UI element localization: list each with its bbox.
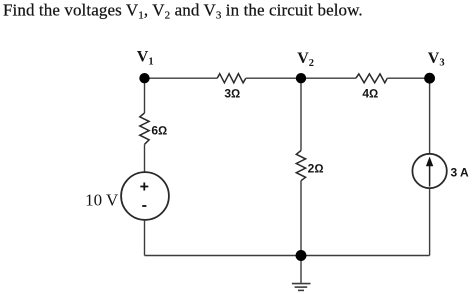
wire bottom rail left: left corner to ground junction (145, 255, 302, 257)
current source IS1 circle (412, 154, 446, 188)
wire bottom rail right: ground junction to right corner (301, 255, 430, 257)
wire middle branch: 2-ohm down to bottom junction (300, 181, 302, 256)
wire middle branch: V2 node down to 2-ohm (300, 78, 302, 150)
current source arrow (429, 163, 431, 187)
wire right branch: V3 node down to current source (429, 78, 431, 154)
wire top rail: 4-ohm to V3 node (387, 77, 429, 79)
voltage source plus sign (140, 183, 148, 191)
resistor R3 6-ohm zigzag (140, 113, 149, 144)
svg-text:2Ω: 2Ω (308, 162, 324, 176)
wire right branch: current source to bottom rail (429, 188, 431, 255)
node V3 junction dot (424, 73, 435, 84)
node V1 junction dot (139, 73, 149, 83)
svg-text:V2: V2 (297, 50, 314, 69)
resistor R4 2-ohm zigzag (296, 151, 305, 181)
ground bar 2 (295, 286, 308, 288)
ground stem (300, 256, 302, 284)
resistor R2 4-ohm zigzag (356, 74, 387, 83)
svg-text:6Ω: 6Ω (151, 123, 167, 137)
svg-text:4Ω: 4Ω (362, 86, 378, 100)
resistor R1 3-ohm zigzag (217, 74, 246, 83)
ground bar 1 (292, 283, 311, 285)
ground node junction dot (296, 250, 307, 261)
voltage source minus sign (142, 205, 146, 207)
wire left branch: 6-ohm to voltage source (144, 144, 146, 172)
ground bar 3 (298, 289, 304, 291)
svg-text:10 V: 10 V (85, 191, 119, 210)
svg-text:V3: V3 (428, 50, 445, 69)
svg-text:Find the voltages V1, V2 and V: Find the voltages V1, V2 and V3 in the c… (3, 1, 363, 22)
node V2 junction dot (296, 73, 306, 83)
voltage source VS1 circle (121, 172, 169, 220)
svg-text:V1: V1 (137, 49, 154, 68)
svg-text:3Ω: 3Ω (224, 86, 240, 100)
wire left branch: V1 node down to 6-ohm (144, 78, 146, 113)
wire top rail: V1 node to 3-ohm resistor (145, 77, 218, 79)
svg-text:3 A: 3 A (450, 166, 469, 180)
wire top rail: V2 node to 4-ohm resistor (301, 77, 356, 79)
wire left branch: voltage source to bottom rail (144, 220, 146, 256)
wire top rail: 3-ohm to V2 node (246, 77, 301, 79)
